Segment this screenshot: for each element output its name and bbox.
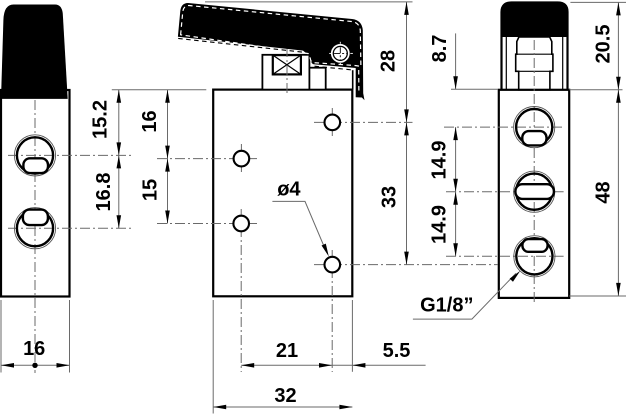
port L1 slot bbox=[23, 158, 48, 173]
15 bottom arrow bbox=[165, 211, 170, 224]
X diagonal 2 bbox=[273, 55, 301, 74]
33 bottom arrow bbox=[404, 252, 409, 265]
G1/8 leader arrow bbox=[510, 269, 522, 282]
port P3 thread circle bbox=[514, 236, 555, 277]
plunger center line bbox=[286, 47, 288, 95]
svg-text:8.7: 8.7 bbox=[429, 35, 451, 63]
port P3 bore circle bbox=[516, 238, 552, 274]
o4 leader arrow bbox=[322, 244, 331, 258]
20.5/48 hourglass bbox=[616, 77, 621, 90]
left view port L1 center line bbox=[8, 154, 131, 156]
dim line 28/33 bbox=[406, 2, 408, 265]
16 top arrow bbox=[165, 90, 170, 103]
dim 16 right arrow bbox=[57, 363, 70, 368]
48 bottom arrow bbox=[616, 283, 621, 296]
port P2 thread circle bbox=[514, 171, 555, 212]
port L1 bore circle (thick) bbox=[17, 137, 53, 173]
ext line body left bbox=[212, 300, 214, 414]
14.9 top arrow bbox=[453, 127, 458, 140]
port L2 slot bbox=[23, 210, 48, 226]
14.9 bottom arrow bbox=[453, 243, 458, 256]
lever hidden outline (white dashes) bbox=[181, 6, 361, 67]
svg-text:21: 21 bbox=[276, 340, 298, 362]
o4 leader bbox=[272, 201, 326, 251]
21 right arrow bbox=[319, 363, 332, 368]
5.5 arrow bbox=[352, 363, 365, 368]
pivot crosshair bbox=[334, 52, 346, 54]
port L2 thread circle (thin) bbox=[14, 208, 55, 249]
hole H2 center lines bbox=[157, 158, 258, 160]
hole H4 (bottom right) bbox=[325, 257, 341, 273]
svg-text:14.9: 14.9 bbox=[429, 205, 451, 244]
dim 16 dimension line bbox=[1, 364, 70, 366]
left view vertical center line bbox=[34, 100, 36, 373]
svg-text:33: 33 bbox=[378, 186, 400, 208]
16/15 hourglass arrows bbox=[165, 146, 170, 159]
cap inner shell right bbox=[562, 37, 564, 90]
top extension line (body top) bbox=[112, 89, 207, 91]
svg-text:28: 28 bbox=[378, 50, 400, 72]
port P3 slot bbox=[522, 239, 547, 252]
svg-text:ø4: ø4 bbox=[277, 179, 301, 201]
port P2 slot bbox=[515, 184, 554, 199]
15.2 top arrow bbox=[117, 90, 122, 103]
dim column 15.2/16.8 line bbox=[118, 90, 120, 229]
svg-text:15: 15 bbox=[139, 179, 161, 201]
ext line right body top bbox=[451, 88, 498, 90]
plunger block B bbox=[309, 68, 325, 90]
28 top arrow bbox=[404, 2, 409, 15]
front body bbox=[213, 90, 352, 297]
svg-text:14.9: 14.9 bbox=[429, 141, 451, 180]
ext line body top right bbox=[569, 89, 622, 91]
left view port L2 center line bbox=[8, 227, 131, 229]
lever tab hidden line (white dashes) bbox=[358, 70, 360, 94]
port P1 bore circle bbox=[516, 109, 552, 145]
8.7 down arrow bbox=[453, 76, 458, 89]
port P3 center line bbox=[446, 255, 564, 257]
ext line body right bbox=[351, 300, 353, 372]
16.8 bottom arrow bbox=[117, 215, 122, 228]
port L1 thread circle (thin) bbox=[14, 135, 55, 176]
14.9 shaft bbox=[455, 127, 457, 256]
21 left arrow bbox=[241, 363, 254, 368]
dim 16 center dot bbox=[32, 363, 37, 368]
lever hidden outline (black dashes below) bbox=[178, 38, 303, 52]
dim line 21/5.5 bbox=[241, 364, 425, 366]
svg-text:5.5: 5.5 bbox=[383, 340, 411, 362]
dim column 16/15 line bbox=[167, 90, 169, 224]
15.2/16.8 hourglass arrows bbox=[117, 142, 122, 155]
X diagonal 1 bbox=[273, 55, 301, 74]
plunger block A bbox=[262, 55, 309, 90]
ext line cap top bbox=[570, 1, 626, 3]
dim line 32 bbox=[213, 406, 352, 408]
lever (black) bbox=[178, 3, 365, 100]
32 left arrow bbox=[213, 405, 226, 410]
svg-text:15.2: 15.2 bbox=[90, 100, 112, 139]
left view body bbox=[1, 90, 70, 297]
svg-text:16.8: 16.8 bbox=[93, 173, 115, 212]
G1/8 leader bbox=[413, 273, 516, 319]
dim 16 extension line left bbox=[0, 300, 2, 373]
svg-text:G1/8”: G1/8” bbox=[420, 294, 473, 316]
14.9 hourglass bbox=[453, 179, 458, 192]
right cap outline bbox=[502, 3, 568, 90]
svg-text:32: 32 bbox=[274, 385, 296, 407]
dim line 20.5/48 bbox=[617, 2, 619, 296]
plunger step line 1 bbox=[516, 53, 553, 55]
32 right arrow bbox=[339, 405, 352, 410]
svg-text:48: 48 bbox=[593, 181, 615, 203]
right view body bbox=[499, 90, 569, 298]
cap inner shell left bbox=[505, 37, 507, 90]
port P2 center line bbox=[446, 191, 564, 193]
hole H3 center lines bbox=[157, 223, 258, 225]
dim 16 left arrow bbox=[1, 363, 14, 368]
port P1 thread circle bbox=[514, 107, 555, 148]
hole H1 center lines bbox=[314, 121, 413, 123]
pivot crosshair white ticks bbox=[329, 52, 332, 54]
28/33 hourglass bbox=[404, 109, 409, 122]
20.5 top arrow bbox=[616, 2, 621, 15]
hole H4 center lines bbox=[314, 264, 498, 266]
port P1 center line bbox=[444, 126, 564, 128]
right cap black top bbox=[502, 3, 568, 38]
svg-text:16: 16 bbox=[139, 110, 161, 132]
hole H2 (mid left) bbox=[234, 151, 250, 167]
8.7 upper shaft bbox=[455, 33, 457, 89]
lever pivot pin bbox=[331, 44, 350, 63]
ext line lever top bbox=[205, 1, 413, 3]
svg-text:16: 16 bbox=[23, 338, 45, 360]
port P1 slot bbox=[522, 131, 546, 145]
left view rubber cap (black) bbox=[1, 5, 68, 99]
dim 16 extension line right bbox=[69, 300, 71, 373]
body right edge upper segment bbox=[352, 70, 354, 89]
svg-text:20.5: 20.5 bbox=[593, 25, 615, 64]
port L2 bore circle (thick) bbox=[17, 210, 53, 246]
hole H3 (lower left) bbox=[233, 216, 249, 232]
port P2 bore circle bbox=[516, 174, 552, 210]
hole H1 (top right) bbox=[325, 115, 341, 131]
plunger step line 2 bbox=[519, 70, 550, 72]
plunger X square bbox=[273, 55, 301, 74]
ext line body bottom right bbox=[569, 295, 626, 297]
lever hidden outline (black dashes below, right part) bbox=[315, 66, 353, 70]
plunger outline bbox=[516, 37, 553, 90]
right view vertical center line bbox=[533, 40, 535, 303]
